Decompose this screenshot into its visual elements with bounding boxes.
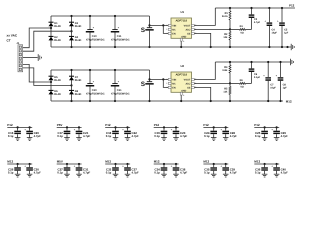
wire — [267, 81, 269, 101]
wire — [229, 83, 231, 86]
ground rail end ch1 — [291, 44, 294, 50]
junction — [163, 126, 165, 128]
svg-text:4.7µF: 4.7µF — [34, 171, 41, 175]
wire AC1 to bridge1 — [23, 28, 51, 48]
junction — [126, 163, 128, 165]
wire — [149, 85, 151, 101]
junction — [70, 15, 72, 17]
wire — [251, 62, 253, 68]
wire bridge col1 — [50, 70, 52, 101]
svg-text:RL4D: RL4D — [75, 79, 82, 82]
svg-text:M12: M12 — [203, 160, 209, 164]
junction divider — [229, 28, 231, 30]
junction — [126, 126, 128, 128]
ground C25 — [262, 138, 268, 141]
wire — [276, 164, 278, 167]
svg-text:S: S — [141, 81, 146, 88]
junction — [78, 163, 80, 165]
wire EN tie — [163, 25, 168, 33]
junction — [229, 46, 231, 48]
ground C39 — [223, 174, 229, 177]
wire — [229, 20, 231, 29]
junction — [114, 46, 116, 48]
svg-text:RL4D: RL4D — [75, 25, 82, 28]
svg-text:93.1k: 93.1k — [222, 15, 229, 18]
wire — [115, 171, 117, 174]
wire — [163, 164, 165, 167]
junction — [250, 61, 252, 63]
ground C40 — [274, 174, 280, 177]
svg-text:P12: P12 — [105, 123, 111, 127]
wire output rail M12 — [51, 100, 283, 102]
svg-text:VOUT: VOUT — [184, 24, 191, 27]
svg-text:0.1µF: 0.1µF — [254, 76, 261, 79]
wire — [17, 164, 19, 167]
svg-text:P12: P12 — [203, 123, 209, 127]
wire — [213, 127, 215, 130]
wire — [127, 164, 129, 167]
wire VIN to U2 — [150, 78, 169, 80]
ground C30 — [27, 174, 33, 177]
wire P5V stub — [57, 126, 82, 128]
junction — [268, 46, 270, 48]
wire — [229, 95, 231, 102]
svg-text:6: 6 — [183, 40, 184, 43]
svg-text:4.7µF: 4.7µF — [83, 171, 90, 175]
junction — [276, 126, 278, 128]
wire — [246, 28, 252, 30]
wire — [78, 171, 80, 174]
svg-text:M5V: M5V — [57, 160, 63, 164]
svg-text:470µF/25WVDC: 470µF/25WVDC — [86, 92, 105, 95]
svg-text:1: 1 — [166, 82, 167, 85]
wire — [268, 8, 270, 22]
wire — [268, 26, 270, 47]
junction — [89, 46, 91, 48]
junction — [267, 61, 269, 63]
svg-text:10µF: 10µF — [270, 87, 276, 90]
junction — [148, 100, 150, 102]
ground C24 — [211, 138, 217, 141]
diode D7 — [69, 76, 82, 82]
wire P12 stub — [154, 126, 179, 128]
wire — [29, 134, 31, 137]
junction — [264, 126, 266, 128]
wire — [175, 171, 177, 174]
wire ADJ to divider — [194, 28, 230, 30]
diode D4 — [69, 36, 82, 42]
wire — [66, 134, 68, 137]
svg-text:470µF/25WVDC: 470µF/25WVDC — [111, 92, 130, 95]
svg-text:4.7µF: 4.7µF — [34, 134, 41, 138]
junction — [114, 100, 116, 102]
diode D8 — [69, 90, 82, 96]
svg-text:4.7µF: 4.7µF — [132, 171, 139, 175]
svg-text:0.1µ: 0.1µ — [106, 134, 112, 138]
wire ADJ2 to divider — [194, 82, 230, 84]
svg-text:RL4D: RL4D — [54, 93, 61, 96]
junction — [89, 100, 91, 102]
junction — [29, 126, 31, 128]
wire — [149, 31, 151, 47]
wire rail top — [51, 15, 150, 17]
wire — [66, 127, 68, 130]
junction EN tie 2 — [162, 78, 164, 80]
wire U2 out up — [194, 62, 215, 79]
svg-text:1µF: 1µF — [283, 87, 288, 90]
wire AC4 to bridge2 — [23, 68, 72, 86]
svg-text:10k: 10k — [223, 36, 228, 39]
junction EN tie — [162, 24, 164, 26]
wire — [89, 33, 91, 48]
svg-text:VIN: VIN — [172, 78, 176, 81]
wire bridge col1 — [50, 16, 52, 47]
junction — [279, 61, 281, 63]
wire — [230, 28, 240, 30]
ground C18 — [113, 138, 119, 141]
wire ground rail ch2 — [215, 61, 290, 63]
wire AC3 to bridge2 — [23, 64, 51, 82]
svg-text:ADJ: ADJ — [186, 28, 191, 31]
svg-text:NC: NC — [172, 82, 176, 85]
junction — [225, 126, 227, 128]
junction — [281, 46, 283, 48]
svg-text:M12: M12 — [7, 160, 13, 164]
junction bridge1 AC1 — [50, 27, 52, 29]
wire — [127, 134, 129, 137]
wire — [230, 82, 240, 84]
wire — [89, 70, 91, 83]
wire bridge col2 — [71, 16, 73, 47]
ground C22 — [125, 138, 131, 141]
ground rail end ch2 — [290, 59, 293, 65]
wire M12 stub — [154, 163, 179, 165]
svg-text:4.7µF: 4.7µF — [180, 171, 187, 175]
svg-text:RL4D: RL4D — [54, 39, 61, 42]
svg-text:M12: M12 — [105, 160, 111, 164]
svg-text:C10: C10 — [92, 35, 97, 38]
wire — [175, 134, 177, 137]
svg-text:VOUT: VOUT — [184, 78, 191, 81]
wire VOUT up — [194, 8, 215, 25]
junction — [89, 69, 91, 71]
ground C38 — [173, 174, 179, 177]
wire — [280, 81, 282, 101]
svg-text:4.7µF: 4.7µF — [281, 171, 288, 175]
junction — [114, 163, 116, 165]
wire P12 stub — [105, 126, 130, 128]
svg-text:P12: P12 — [7, 123, 13, 127]
wire — [115, 127, 117, 130]
svg-text:P12: P12 — [289, 4, 295, 8]
wire — [264, 171, 266, 174]
ground C33 — [113, 174, 119, 177]
wire — [17, 134, 19, 137]
ground C27 — [64, 174, 70, 177]
wire P12 stub — [7, 126, 32, 128]
svg-text:RL4D: RL4D — [54, 25, 61, 28]
svg-text:C31: C31 — [117, 89, 122, 92]
junction — [229, 100, 231, 102]
junction — [70, 69, 72, 71]
wire M12 stub — [254, 163, 279, 165]
ground C31 — [76, 174, 82, 177]
svg-text:0.1µ: 0.1µ — [154, 171, 160, 175]
svg-text:4.7µF: 4.7µF — [132, 134, 139, 138]
wire — [78, 127, 80, 130]
diode D3 — [69, 22, 82, 28]
wire M12 stub — [7, 163, 32, 165]
wire — [276, 134, 278, 137]
wire — [17, 171, 19, 174]
svg-text:0.1µ: 0.1µ — [106, 171, 112, 175]
junction — [210, 100, 212, 102]
junction — [70, 100, 72, 102]
wire — [115, 164, 117, 167]
ground C36 — [262, 174, 268, 177]
svg-text:SS: SS — [187, 32, 191, 35]
ground C26 — [15, 174, 21, 177]
wire bridge col2 — [71, 70, 73, 101]
wire — [29, 127, 31, 130]
wire VIN to U1 — [150, 24, 169, 26]
svg-text:S: S — [141, 27, 146, 34]
wire — [127, 171, 129, 174]
svg-text:10µF: 10µF — [272, 32, 278, 35]
wire — [78, 164, 80, 167]
junction — [114, 69, 116, 71]
wire M12 stub — [105, 163, 130, 165]
wire — [66, 164, 68, 167]
svg-text:M12: M12 — [254, 160, 260, 164]
junction — [66, 163, 68, 165]
svg-text:4.7µF: 4.7µF — [230, 134, 237, 138]
wire — [229, 8, 231, 11]
wire AC2 to bridge1 — [23, 31, 72, 51]
junction — [250, 7, 252, 9]
junction — [114, 15, 116, 17]
junction — [175, 126, 177, 128]
wire — [89, 16, 91, 29]
regulator U2 ADP7118 — [166, 64, 196, 97]
junction — [148, 46, 150, 48]
junction — [148, 24, 150, 26]
wire — [89, 87, 91, 102]
junction — [180, 100, 182, 102]
wire — [225, 127, 227, 130]
svg-text:C11: C11 — [117, 35, 122, 38]
wire VIN node — [149, 16, 151, 27]
wire — [213, 171, 215, 174]
svg-text:0.1µ: 0.1µ — [57, 134, 63, 138]
svg-text:4.7µF: 4.7µF — [254, 21, 261, 24]
wire — [246, 82, 252, 84]
wire ground rail ch1 — [51, 46, 291, 48]
svg-text:0.1µ: 0.1µ — [8, 171, 14, 175]
svg-text:RL4D: RL4D — [75, 39, 82, 42]
junction divider 2 — [229, 82, 231, 84]
wire — [276, 171, 278, 174]
wire — [29, 164, 31, 167]
ground C28 — [223, 138, 229, 141]
wire — [213, 134, 215, 137]
svg-text:CT: CT — [7, 38, 11, 42]
wire — [264, 127, 266, 130]
svg-text:0.1µ: 0.1µ — [154, 134, 160, 138]
wire — [175, 164, 177, 167]
junction — [281, 7, 283, 9]
svg-text:0.1µ: 0.1µ — [255, 134, 261, 138]
junction — [66, 126, 68, 128]
svg-text:6: 6 — [183, 94, 184, 97]
svg-text:M12: M12 — [154, 160, 160, 164]
wire — [163, 127, 165, 130]
ground C16 — [15, 138, 21, 141]
diode D5 — [49, 76, 62, 82]
svg-text:4.7µF: 4.7µF — [83, 134, 90, 138]
svg-text:470µF/25WVDC: 470µF/25WVDC — [111, 38, 130, 41]
svg-text:M12: M12 — [286, 99, 292, 103]
diode D6 — [49, 90, 62, 96]
junction bridge2 AC4 — [70, 84, 72, 86]
svg-text:4.7µF: 4.7µF — [281, 134, 288, 138]
svg-text:RL4D: RL4D — [75, 93, 82, 96]
wire — [264, 134, 266, 137]
wire — [229, 73, 231, 83]
junction — [229, 7, 231, 9]
svg-text:0.1µ: 0.1µ — [8, 134, 14, 138]
junction — [163, 163, 165, 165]
svg-text:RL4D: RL4D — [54, 79, 61, 82]
wire — [29, 171, 31, 174]
ground C29 — [274, 138, 280, 141]
junction — [279, 100, 281, 102]
svg-text:EN: EN — [172, 32, 176, 35]
ground C35 — [211, 174, 217, 177]
wire M12 stub — [203, 163, 228, 165]
wire — [251, 72, 253, 83]
wire — [163, 171, 165, 174]
junction — [213, 163, 215, 165]
svg-text:SS: SS — [187, 86, 191, 89]
ground C23 — [173, 138, 179, 141]
ground C20 — [27, 138, 33, 141]
svg-text:U2: U2 — [181, 64, 185, 68]
wire — [276, 127, 278, 130]
svg-text:4.7µF: 4.7µF — [230, 171, 237, 175]
wire — [114, 16, 116, 29]
wire — [114, 33, 116, 48]
ground C34 — [161, 174, 167, 177]
wire — [225, 171, 227, 174]
wire — [225, 134, 227, 137]
wire — [213, 164, 215, 167]
wire — [66, 171, 68, 174]
svg-text:P12: P12 — [254, 123, 260, 127]
svg-text:VIN: VIN — [172, 24, 176, 27]
wire rail top — [51, 69, 150, 71]
svg-text:115k: 115k — [222, 69, 228, 72]
svg-text:0.1µ: 0.1µ — [204, 134, 210, 138]
wire — [229, 40, 231, 47]
wire — [127, 127, 129, 130]
wire — [251, 18, 253, 29]
wire — [280, 62, 282, 77]
wire center tap to ground — [23, 57, 38, 59]
wire — [114, 70, 116, 83]
svg-text:ADJ: ADJ — [186, 82, 191, 85]
wire — [163, 134, 165, 137]
regulator U1 ADP7118 — [166, 10, 196, 43]
wire — [229, 29, 231, 31]
junction — [276, 163, 278, 165]
svg-text:GND: GND — [181, 90, 186, 93]
wire — [17, 127, 19, 130]
wire — [229, 62, 231, 65]
wire — [225, 164, 227, 167]
junction — [175, 163, 177, 165]
svg-text:P12: P12 — [154, 123, 160, 127]
junction — [267, 100, 269, 102]
wire — [267, 62, 269, 77]
wire — [114, 87, 116, 102]
ground C37 — [125, 174, 131, 177]
svg-text:4.7µF: 4.7µF — [180, 134, 187, 138]
wire — [281, 26, 283, 47]
svg-text:P5V: P5V — [57, 123, 63, 127]
svg-text:GND: GND — [181, 36, 186, 39]
wire VIN node — [149, 70, 151, 81]
wire — [115, 134, 117, 137]
wire U2 GND stub — [180, 95, 182, 101]
junction rail end — [286, 46, 288, 48]
svg-text:0.1µ: 0.1µ — [255, 171, 261, 175]
wire — [251, 8, 253, 14]
svg-text:0.1µ: 0.1µ — [204, 171, 210, 175]
junction — [17, 163, 19, 165]
wire EN tie 2 — [163, 79, 168, 87]
ground C21 — [76, 138, 82, 141]
svg-text:NC: NC — [172, 28, 176, 31]
diode D2 — [49, 36, 62, 42]
wire SS2 down — [194, 87, 210, 101]
svg-text:C30: C30 — [92, 89, 97, 92]
wire — [78, 134, 80, 137]
junction — [180, 46, 182, 48]
wire — [175, 127, 177, 130]
svg-text:EN: EN — [172, 86, 176, 89]
junction — [29, 163, 31, 165]
svg-text:13k: 13k — [223, 91, 228, 94]
ground C19 — [161, 138, 167, 141]
wire — [281, 8, 283, 22]
svg-text:470µF/25WVDC: 470µF/25WVDC — [86, 38, 105, 41]
svg-text:0Ω: 0Ω — [240, 86, 243, 89]
junction — [114, 126, 116, 128]
junction bridge1 AC2 — [70, 30, 72, 32]
junction — [210, 46, 212, 48]
wire M5V stub — [57, 163, 82, 165]
svg-text:ADP7118: ADP7118 — [175, 74, 187, 77]
junction — [148, 78, 150, 80]
junction — [78, 126, 80, 128]
wire — [264, 164, 266, 167]
wire P12 stub — [254, 126, 279, 128]
ground C17 — [64, 138, 70, 141]
wire U1 GND stub — [180, 41, 182, 47]
wire output rail P12 — [215, 7, 295, 9]
svg-text:1: 1 — [166, 28, 167, 31]
